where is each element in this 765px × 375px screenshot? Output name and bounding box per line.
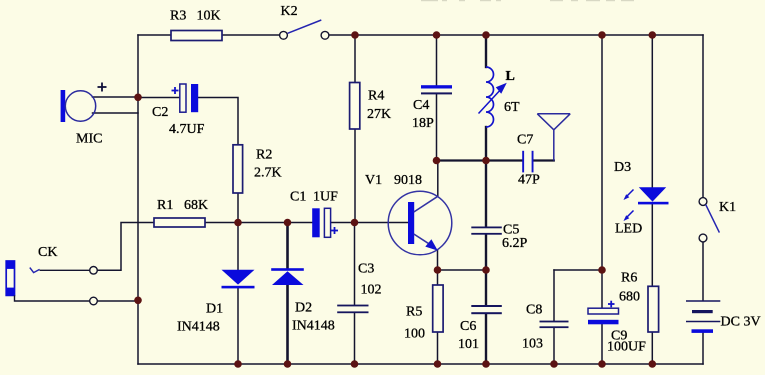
capacitor C1 electrolytic (312, 208, 330, 237)
transistor V1 (388, 191, 452, 255)
wire CK bottom contact to ground column (97, 300, 138, 302)
svg-text:9018: 9018 (394, 173, 422, 188)
svg-text:6.2P: 6.2P (502, 236, 528, 251)
label D2 IN4148 (292, 301, 335, 334)
wire R1 right to C1 left plate (205, 222, 312, 224)
node ground / C9 (598, 360, 606, 368)
wire C8 bottom lead (553, 328, 555, 364)
svg-text:68K: 68K (184, 198, 208, 213)
C1 plus polarity mark (331, 227, 338, 234)
node top rail / C4 (433, 31, 441, 39)
node base / D2 (284, 219, 292, 227)
node CK ground (134, 297, 142, 305)
wire R5 bottom lead (437, 332, 439, 364)
wire MIC plus terminal (93, 96, 139, 98)
wire CK top contact to R1 (97, 223, 154, 271)
wire C2 right plate to R2 top (198, 98, 238, 145)
node ground / D1 (234, 360, 242, 368)
wire LED to R6 (651, 204, 653, 286)
wire C8 row from corner to C9 column (554, 269, 602, 271)
svg-text:27K: 27K (367, 107, 391, 122)
resistor R4 (350, 83, 360, 130)
wire L top lead (bold) (485, 35, 487, 67)
svg-text:IN4148: IN4148 (177, 320, 220, 335)
resistor R1 (154, 218, 205, 227)
node top rail / R4 (351, 31, 359, 39)
node ground / C3 (351, 360, 359, 368)
svg-text:C2: C2 (152, 105, 168, 120)
svg-text:K1: K1 (719, 200, 736, 215)
svg-text:102: 102 (361, 283, 382, 298)
svg-text:D3: D3 (614, 160, 631, 175)
label R5 100 (404, 305, 425, 342)
label L 6T (504, 69, 520, 115)
node MIC bias (134, 94, 142, 102)
svg-text:K2: K2 (281, 4, 298, 19)
svg-text:R6: R6 (621, 271, 637, 286)
wire battery to bottom rail (702, 333, 704, 364)
label R2 2.7K (254, 148, 282, 181)
svg-text:100UF: 100UF (607, 340, 646, 355)
wire K1 to battery (702, 242, 704, 301)
node emitter / C5 C6 (482, 266, 490, 274)
resistor R6 (648, 286, 659, 332)
wire V1 collector lead (437, 161, 439, 197)
capacitor C2 electrolytic (180, 84, 198, 112)
wire right column above K1 (702, 35, 704, 198)
wire D2 top lead (bold) (286, 223, 289, 269)
node ground / C6 (482, 360, 490, 368)
antenna (537, 114, 570, 161)
svg-text:C7: C7 (517, 133, 533, 148)
wire C7 to antenna stem (bold) (534, 159, 554, 161)
LED D3 light arrows (624, 190, 634, 222)
svg-text:1UF: 1UF (313, 190, 338, 205)
svg-text:103: 103 (522, 337, 543, 352)
wire C6 bottom lead (bold) (485, 314, 487, 364)
svg-text:IN4148: IN4148 (292, 319, 335, 334)
wire C1 right plate to V1 base (331, 222, 408, 224)
label C7 47P (517, 133, 540, 188)
node ground / D2 (284, 360, 292, 368)
label V1 9018 (365, 173, 422, 188)
MIC plus polarity mark (98, 83, 107, 92)
svg-text:CK: CK (38, 245, 57, 260)
wire LED top lead (651, 35, 653, 187)
capacitor C4 (421, 85, 452, 94)
label C9 100UF (607, 329, 646, 355)
wire C4 top lead (436, 35, 438, 85)
wire top rail left segment (138, 34, 280, 36)
svg-text:100: 100 (404, 327, 425, 342)
wire D1 top lead (237, 223, 239, 270)
wire R2 bottom to base node (237, 193, 239, 223)
label C5 6.2P (502, 223, 528, 252)
svg-text:10K: 10K (197, 9, 221, 24)
node top rail / L (482, 31, 490, 39)
wire D2 bottom lead (bold) (286, 285, 289, 364)
diode D2 (271, 268, 304, 285)
wire C9 upper lead (601, 270, 603, 308)
wire R4 top lead (354, 35, 356, 83)
svg-text:18P: 18P (412, 116, 434, 131)
svg-text:R2: R2 (256, 148, 272, 163)
node C8 C9 supply (598, 266, 606, 274)
node base / D1 R2 (234, 219, 242, 227)
label C2 4.7UF (152, 105, 205, 137)
capacitor C7 (522, 151, 533, 173)
label C4 18P (412, 98, 434, 131)
svg-text:R1: R1 (157, 198, 173, 213)
wire top rail right segment (329, 34, 703, 36)
wire bottom rail (138, 363, 703, 365)
wire R5 top lead (437, 270, 439, 285)
svg-text:C8: C8 (526, 303, 542, 318)
svg-text:DC 3V: DC 3V (721, 315, 761, 330)
node ground / R5 (434, 360, 442, 368)
label R1 68K (157, 198, 208, 213)
node collector / L (482, 157, 490, 165)
wire MIC minus terminal (93, 112, 139, 114)
switch K1 (699, 198, 719, 242)
node ground / C8 (550, 360, 558, 368)
label R4 27K (367, 89, 391, 123)
wire V1 emitter lead (437, 250, 439, 270)
resistor R2 (233, 145, 243, 193)
label C8 103 (522, 303, 543, 352)
svg-text:101: 101 (458, 337, 479, 352)
svg-text:R4: R4 (368, 89, 384, 104)
label R3 10K (170, 9, 221, 24)
wire C5 top lead (bold) (485, 161, 487, 227)
C2 plus polarity mark (172, 87, 179, 94)
node emitter / R5 (434, 266, 442, 274)
wire C3 top lead (354, 223, 356, 305)
label C1 1UF (290, 190, 338, 205)
svg-text:2.7K: 2.7K (254, 166, 282, 181)
wire C3 bottom lead (354, 313, 356, 364)
node top rail / LED column (649, 31, 657, 39)
inductor L coil (486, 67, 494, 127)
svg-text:D1: D1 (206, 302, 223, 317)
inductor L adjust arrow (479, 83, 507, 114)
wire C4 bottom lead (436, 94, 438, 159)
svg-text:680: 680 (619, 290, 640, 305)
capacitor C3 (337, 305, 368, 314)
wire C8 top lead (553, 270, 555, 321)
capacitor C8 (540, 321, 569, 328)
wire R4 bottom lead (354, 129, 356, 223)
svg-text:C1: C1 (290, 190, 306, 205)
wire C9 long top lead from top rail (601, 35, 603, 270)
svg-text:C6: C6 (460, 319, 476, 334)
wire D1 bottom lead (237, 288, 239, 364)
svg-text:C3: C3 (358, 262, 374, 277)
label D3 LED (614, 160, 642, 237)
diode D1 (222, 270, 255, 289)
svg-text:C4: C4 (413, 98, 429, 113)
CK jack socket (6, 261, 97, 305)
wire C9 bottom lead (601, 324, 603, 364)
svg-text:MIC: MIC (76, 132, 102, 147)
svg-text:R5: R5 (406, 305, 422, 320)
wire C5 to C6 segment (bold) (485, 235, 487, 305)
wire node to C2 left plate (138, 97, 180, 99)
resistor R5 (433, 285, 443, 332)
battery DC 3V (686, 301, 720, 333)
wire R6 bottom lead (651, 332, 653, 364)
capacitor C9 electrolytic (588, 308, 619, 324)
svg-text:L: L (506, 69, 515, 84)
switch K2 (280, 20, 329, 39)
node ground / R6 (649, 360, 657, 368)
svg-text:4.7UF: 4.7UF (169, 122, 205, 137)
node top rail / C9 column (598, 31, 606, 39)
label D1 IN4148 (177, 302, 223, 335)
resistor R3 (171, 31, 222, 41)
faint cropped text remnants along top edge (421, 0, 634, 1)
label C6 101 (458, 319, 479, 352)
label C3 102 (358, 262, 382, 298)
svg-text:R3: R3 (170, 9, 186, 24)
capacitor C5 (471, 227, 502, 235)
wire L bottom lead (bold) (485, 127, 487, 161)
wire left column x=138 (MIC/ground vertical) (137, 35, 139, 364)
node collector / C4 (433, 157, 441, 165)
node base / C3 R4 (351, 219, 359, 227)
label R6 680 (619, 271, 640, 305)
capacitor C6 (471, 305, 502, 314)
svg-text:D2: D2 (295, 301, 312, 316)
C9 plus polarity mark (608, 301, 615, 308)
svg-text:6T: 6T (504, 100, 520, 115)
svg-text:LED: LED (615, 222, 642, 237)
wire collector node line to C7 (bold) (435, 159, 522, 161)
svg-text:47P: 47P (518, 173, 540, 188)
microphone MIC electret capsule (61, 90, 96, 122)
wire emitter row to C5/C6 column (438, 269, 487, 271)
LED D3 (638, 187, 669, 204)
svg-text:V1: V1 (365, 173, 382, 188)
